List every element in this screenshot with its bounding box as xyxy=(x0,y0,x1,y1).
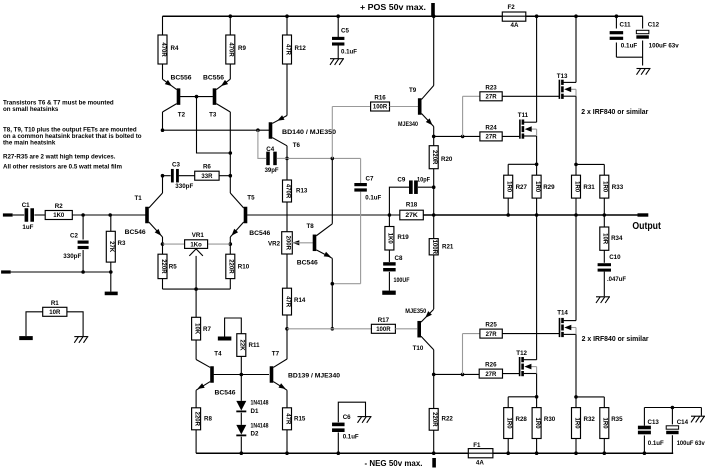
junction bias tie xyxy=(240,373,244,377)
wire R12 to T6 emitter xyxy=(286,64,288,116)
junction bottom R32 xyxy=(574,451,578,455)
ground R11 xyxy=(218,337,232,341)
wire up to R23 xyxy=(463,96,480,136)
junction C2 return xyxy=(81,270,85,274)
svg-text:C5: C5 xyxy=(341,28,349,35)
input ground stub xyxy=(1,270,11,273)
svg-text:27K: 27K xyxy=(108,241,114,253)
junction R3 node xyxy=(108,213,112,217)
svg-text:T13: T13 xyxy=(557,73,568,80)
svg-text:470R: 470R xyxy=(228,42,234,57)
junction C4 branch xyxy=(256,128,260,132)
svg-text:R21: R21 xyxy=(442,244,454,251)
svg-text:T9: T9 xyxy=(409,87,417,94)
transistor T7 xyxy=(270,351,341,391)
svg-text:1R0: 1R0 xyxy=(602,418,608,430)
resistor R21 xyxy=(429,215,454,309)
junction mirror out xyxy=(161,128,165,132)
junction T10 emitter node xyxy=(432,373,436,377)
wire T12 drain xyxy=(536,215,538,360)
wire R14 to T7 collector xyxy=(286,315,288,359)
resistor R1 xyxy=(43,300,67,317)
svg-text:R26: R26 xyxy=(485,362,497,369)
wire R12 top xyxy=(286,16,288,35)
junction C14 top xyxy=(671,406,675,410)
svg-text:R35: R35 xyxy=(611,416,623,423)
ground R1 right xyxy=(74,337,88,343)
svg-text:R24: R24 xyxy=(485,124,497,131)
junction out rail A xyxy=(506,213,510,217)
svg-text:T12: T12 xyxy=(516,350,527,357)
junction top rail at R12 xyxy=(285,14,289,18)
wire input to C1 xyxy=(13,214,25,216)
wire T3 collector column xyxy=(229,112,231,176)
junction top rail at T13 drain xyxy=(574,14,578,18)
wire R25 to T14 gate xyxy=(502,333,559,335)
wire R17 to T10 base xyxy=(395,328,417,330)
svg-text:All other resistors are 0.5 wa: All other resistors are 0.5 watt metal f… xyxy=(3,164,122,171)
label 2xIRF840 top xyxy=(581,109,648,116)
wire C4 left xyxy=(258,130,266,158)
svg-text:C9: C9 xyxy=(397,176,405,183)
wire R24 to T11 gate xyxy=(502,135,519,137)
resistor R28 xyxy=(504,397,528,453)
svg-text:0.1uF: 0.1uF xyxy=(648,440,664,447)
mosfet T13 xyxy=(557,73,576,99)
wire R9 to T3 emitter xyxy=(229,64,231,79)
capacitor C1 xyxy=(22,202,34,231)
svg-text:1R0: 1R0 xyxy=(573,181,579,193)
output terminal xyxy=(638,213,649,216)
svg-text:D1: D1 xyxy=(251,408,259,415)
wire T13 drain xyxy=(575,16,577,82)
wire T11 drain xyxy=(536,16,538,122)
wire R17 line xyxy=(287,328,371,330)
svg-text:R18: R18 xyxy=(406,202,418,209)
svg-text:R22: R22 xyxy=(442,416,454,423)
svg-text:1R0: 1R0 xyxy=(506,181,512,193)
svg-text:C6: C6 xyxy=(343,414,351,421)
mosfet T11 xyxy=(518,112,537,139)
capacitor C5 xyxy=(332,16,357,58)
resistor R19 xyxy=(385,215,409,250)
resistor R31 xyxy=(572,164,596,215)
junction T3 collector tie xyxy=(229,151,233,155)
resistor R10 xyxy=(226,244,250,289)
svg-text:10R: 10R xyxy=(49,310,61,316)
wire T8 collector up xyxy=(331,158,333,223)
junction bottom C6 xyxy=(337,451,341,455)
diode D2 xyxy=(236,413,269,438)
junction top rail at T11 drain xyxy=(535,14,539,18)
svg-text:R17: R17 xyxy=(378,317,390,324)
svg-text:R34: R34 xyxy=(611,235,623,242)
wire T11 source xyxy=(536,136,538,164)
svg-text:100R: 100R xyxy=(376,327,391,333)
transistor T5 xyxy=(230,193,271,237)
label Output xyxy=(632,221,661,232)
wire T10 emitter down xyxy=(433,350,435,375)
resistor R32 xyxy=(572,397,596,453)
svg-text:R6: R6 xyxy=(203,164,211,171)
trimpot VR2 xyxy=(268,232,299,254)
fuse F2 xyxy=(502,4,526,29)
transistor T4 xyxy=(196,351,236,397)
wire comp node xyxy=(287,157,361,159)
svg-text:T3: T3 xyxy=(209,112,217,119)
transistor T6 xyxy=(269,115,337,149)
svg-text:0.1uF: 0.1uF xyxy=(341,49,357,56)
svg-text:T4: T4 xyxy=(214,351,222,358)
svg-text:1K0: 1K0 xyxy=(387,233,393,245)
wire R20 to mid rail xyxy=(433,169,435,215)
resistor R3 xyxy=(106,215,126,292)
svg-text:- NEG 50v max.: - NEG 50v max. xyxy=(365,459,423,468)
junction gate splitter xyxy=(461,135,465,139)
wire tail bus xyxy=(163,288,231,290)
junction C9 right xyxy=(432,185,436,189)
svg-text:the main heatsink: the main heatsink xyxy=(3,140,56,147)
wire T2 T3 base tie xyxy=(180,96,213,98)
capacitor C4 xyxy=(265,146,279,174)
capacitor C12 xyxy=(636,22,679,50)
svg-text:1N4148: 1N4148 xyxy=(251,423,269,430)
svg-text:C3: C3 xyxy=(172,162,180,169)
transistor T10 xyxy=(405,308,433,352)
svg-text:10K: 10K xyxy=(193,323,199,335)
junction bottom R30 xyxy=(535,451,539,455)
resistor R8 xyxy=(192,408,213,453)
resistor R5 xyxy=(158,244,177,289)
svg-text:R14: R14 xyxy=(294,297,306,304)
wire drain bus AB low xyxy=(508,396,536,398)
svg-text:200R: 200R xyxy=(284,236,290,251)
resistor R25 xyxy=(480,322,502,339)
junction T11 source node xyxy=(535,163,539,167)
capacitor C14 xyxy=(666,419,705,453)
transistor T1 xyxy=(125,193,163,237)
svg-text:BC546: BC546 xyxy=(215,389,237,396)
svg-text:R32: R32 xyxy=(584,416,596,423)
wire C3 left xyxy=(163,175,171,177)
svg-text:220R: 220R xyxy=(160,259,166,274)
resistor R18 xyxy=(400,202,424,220)
svg-text:330pF: 330pF xyxy=(63,253,81,260)
svg-text:4A: 4A xyxy=(511,22,519,29)
fuse F1 xyxy=(468,442,493,467)
junction bottom R35 xyxy=(603,451,607,455)
svg-text:F2: F2 xyxy=(508,4,516,11)
transistor T9 xyxy=(398,86,434,129)
note text xyxy=(3,100,142,171)
wire T4 T7 base tie xyxy=(214,374,269,376)
wire C4 right xyxy=(277,157,287,159)
svg-text:T14: T14 xyxy=(557,310,568,317)
wire R18 right xyxy=(423,214,637,216)
wire source bus CD xyxy=(576,163,604,165)
junction mid rail at R21 xyxy=(432,213,436,217)
svg-text:R12: R12 xyxy=(295,45,307,52)
svg-text:R10: R10 xyxy=(238,264,250,271)
svg-text:27R: 27R xyxy=(485,372,497,378)
wire R4 to T2 emitter xyxy=(162,64,164,79)
wire input return xyxy=(11,271,111,273)
resistor R16 xyxy=(371,95,390,112)
wire C3 to R6 xyxy=(179,175,195,177)
resistor R7 xyxy=(192,289,212,340)
resistor R30 xyxy=(532,397,556,453)
svg-text:1uF: 1uF xyxy=(22,224,33,231)
svg-text:220R: 220R xyxy=(431,150,437,165)
junction top rail at T9 xyxy=(432,14,436,18)
svg-text:R4: R4 xyxy=(171,45,179,52)
svg-text:R19: R19 xyxy=(397,234,409,241)
svg-text:D2: D2 xyxy=(251,431,259,438)
junction bottom R22 xyxy=(432,451,436,455)
junction base tie xyxy=(195,95,199,99)
svg-text:C11: C11 xyxy=(620,22,632,29)
svg-text:T11: T11 xyxy=(518,112,529,119)
positive supply tick xyxy=(431,3,435,16)
wire D2 to rail xyxy=(240,437,242,454)
capacitor C6 xyxy=(332,402,365,453)
wire drain bus CD low xyxy=(576,396,604,398)
svg-text:0.1uF: 0.1uF xyxy=(365,195,381,202)
wire R26 to T12 gate xyxy=(503,373,520,375)
svg-text:T8: T8 xyxy=(307,223,315,230)
resistor R27 xyxy=(504,164,528,215)
wire T5 collector xyxy=(229,176,231,193)
junction out rail C xyxy=(574,213,578,217)
junction out rail B xyxy=(535,213,539,217)
junction T1 emitter node xyxy=(161,242,165,246)
svg-text:MJE340: MJE340 xyxy=(398,121,418,128)
resistor R6 xyxy=(195,164,219,181)
resistor R2 xyxy=(45,203,72,220)
junction T5 emitter node xyxy=(229,242,233,246)
junction T8 at R17 xyxy=(331,327,335,331)
svg-text:100uF 63v: 100uF 63v xyxy=(649,43,680,50)
svg-text:33R: 33R xyxy=(201,174,213,180)
ground C13 C14 xyxy=(691,416,705,422)
capacitor C2 xyxy=(63,215,88,272)
svg-text:T1: T1 xyxy=(135,195,143,202)
svg-text:2 x IRF840 or similar: 2 x IRF840 or similar xyxy=(582,336,649,343)
junction T12 source node xyxy=(535,395,539,399)
svg-text:VR1: VR1 xyxy=(192,232,205,239)
svg-text:R23: R23 xyxy=(485,84,497,91)
svg-text:R28: R28 xyxy=(516,416,528,423)
svg-text:.047uF: .047uF xyxy=(607,276,626,283)
resistor R15 xyxy=(283,408,306,453)
ground C10 xyxy=(596,297,610,303)
svg-text:470R: 470R xyxy=(160,42,166,57)
svg-text:R11: R11 xyxy=(249,342,261,349)
junction T6 collector node xyxy=(285,157,289,161)
wire T13 source xyxy=(575,96,577,164)
capacitor C8 xyxy=(383,250,410,291)
ground R3 xyxy=(105,292,118,296)
wire C1 to R2 xyxy=(34,214,45,216)
wire T7 emitter xyxy=(286,390,288,408)
svg-text:Output: Output xyxy=(632,221,661,232)
wire T14 drain xyxy=(575,215,577,321)
ground C5 xyxy=(330,59,344,65)
svg-text:10R: 10R xyxy=(602,233,608,245)
svg-text:MJE350: MJE350 xyxy=(405,308,427,315)
svg-text:C4: C4 xyxy=(266,146,274,153)
wire R16 left xyxy=(332,107,370,159)
resistor R29 xyxy=(532,164,555,215)
wire T9 emitter to gate resistors xyxy=(434,135,463,137)
svg-text:R16: R16 xyxy=(374,95,386,102)
svg-text:220R: 220R xyxy=(431,412,437,427)
transistor T8 xyxy=(297,223,333,266)
junction comp at T8 xyxy=(331,157,335,161)
svg-text:C13: C13 xyxy=(648,419,660,426)
label - NEG 50v max. xyxy=(365,459,423,468)
junction C3 left xyxy=(161,174,165,178)
svg-text:C12: C12 xyxy=(648,22,660,29)
capacitor C3 xyxy=(171,162,194,190)
svg-text:BC556: BC556 xyxy=(203,75,225,82)
svg-text:2 x IRF840 or similar: 2 x IRF840 or similar xyxy=(581,109,648,116)
wire R9 top xyxy=(229,16,231,35)
svg-text:0.1uF: 0.1uF xyxy=(343,434,359,441)
ground C6 xyxy=(358,417,372,423)
junction C2 node xyxy=(81,213,85,217)
svg-text:R27: R27 xyxy=(516,184,528,191)
svg-text:100UF: 100UF xyxy=(394,277,410,284)
mosfet T12 xyxy=(516,350,536,376)
junction R6 right xyxy=(229,174,233,178)
svg-text:R8: R8 xyxy=(204,416,212,423)
wire C11 C12 branch xyxy=(616,16,642,65)
svg-text:BD139 / MJE340: BD139 / MJE340 xyxy=(288,373,341,380)
svg-text:R5: R5 xyxy=(169,264,177,271)
label + POS 50v max. xyxy=(360,3,426,12)
svg-text:100R: 100R xyxy=(431,240,437,255)
svg-text:220R: 220R xyxy=(193,412,199,427)
junction T13 source node xyxy=(574,163,578,167)
mosfet T14 xyxy=(557,310,576,338)
junction lower gate splitter xyxy=(461,373,465,377)
svg-text:C14: C14 xyxy=(677,419,689,426)
svg-text:1K0: 1K0 xyxy=(53,213,65,219)
svg-text:27R: 27R xyxy=(486,332,498,338)
resistor R12 xyxy=(283,35,307,64)
wire C13 C14 top bus xyxy=(644,408,701,426)
resistor R4 xyxy=(158,35,179,64)
svg-text:47R: 47R xyxy=(284,296,290,308)
resistor R35 xyxy=(600,397,623,453)
capacitor C7 xyxy=(354,158,381,283)
svg-text:R9: R9 xyxy=(238,45,246,52)
wire T12 source xyxy=(536,374,538,397)
svg-text:27K: 27K xyxy=(405,212,418,219)
svg-text:F1: F1 xyxy=(473,442,481,449)
ground C11 C12 xyxy=(637,69,651,75)
resistor R24 xyxy=(463,124,503,141)
svg-text:C10: C10 xyxy=(609,254,621,261)
svg-text:4A: 4A xyxy=(476,460,484,467)
svg-text:220R: 220R xyxy=(228,259,234,274)
resistor R26 xyxy=(463,362,503,379)
svg-text:22K: 22K xyxy=(239,340,245,352)
diode D1 xyxy=(236,375,269,415)
junction tail node xyxy=(194,287,198,291)
wire T8 emitter down xyxy=(331,258,333,329)
wire T14 source xyxy=(575,334,577,397)
wire source bus AB xyxy=(508,163,536,165)
junction bottom D2 xyxy=(240,451,244,455)
svg-text:47R: 47R xyxy=(284,413,290,425)
capacitor C9 xyxy=(389,176,433,215)
wire R23 to T13 gate xyxy=(502,95,559,97)
junction T8 emitter C7 xyxy=(331,282,335,286)
resistor R13 xyxy=(283,158,308,202)
svg-text:39pF: 39pF xyxy=(265,167,279,174)
junction top rail at C11 xyxy=(615,14,619,18)
svg-text:R2: R2 xyxy=(55,203,63,210)
wire R7 to T4 collector xyxy=(195,340,197,360)
wire VR2 wiper to T8 base xyxy=(292,242,313,244)
wire R4 top xyxy=(162,16,164,35)
wire VR1 bus xyxy=(163,243,231,245)
resistor R34 xyxy=(600,215,623,250)
svg-text:BD140 / MJE350: BD140 / MJE350 xyxy=(282,129,337,136)
svg-text:27R: 27R xyxy=(486,95,498,101)
svg-text:T7: T7 xyxy=(272,351,280,358)
svg-text:R31: R31 xyxy=(583,184,595,191)
wire T1 collector xyxy=(162,176,164,193)
svg-text:R27-R35 are 2 watt high temp d: R27-R35 are 2 watt high temp devices. xyxy=(3,154,116,161)
svg-text:1R0: 1R0 xyxy=(534,418,540,430)
svg-text:100uF 63v: 100uF 63v xyxy=(677,440,706,447)
ground C8 xyxy=(382,291,396,295)
svg-text:on small heatsinks: on small heatsinks xyxy=(3,106,59,113)
resistor R11 xyxy=(225,318,260,375)
svg-text:1R0: 1R0 xyxy=(506,418,512,430)
wire R1 left xyxy=(26,312,43,336)
junction bottom R28 xyxy=(506,451,510,455)
svg-text:T2: T2 xyxy=(178,112,186,119)
wire base to T3 collector xyxy=(197,97,231,153)
junction bottom R15 xyxy=(285,451,289,455)
wire T6 collector xyxy=(286,146,288,159)
svg-text:T6: T6 xyxy=(293,142,301,149)
wire -50V bottom rail xyxy=(196,452,673,454)
wire up to R25 xyxy=(463,334,480,375)
resistor R22 xyxy=(429,374,453,453)
junction bottom C13 xyxy=(643,451,647,455)
svg-text:47R: 47R xyxy=(284,44,290,56)
svg-text:R30: R30 xyxy=(544,416,556,423)
svg-text:R20: R20 xyxy=(441,156,453,163)
svg-text:R13: R13 xyxy=(296,188,308,195)
wire R13 to VR2 xyxy=(286,202,288,232)
svg-text:10pF: 10pF xyxy=(417,176,430,183)
svg-text:R1: R1 xyxy=(51,300,59,307)
resistor R23 xyxy=(480,84,502,101)
svg-text:R29: R29 xyxy=(543,184,555,191)
transistor T3 xyxy=(203,75,230,119)
wire R2 to T1 base xyxy=(72,214,145,216)
junction out rail D xyxy=(603,213,607,217)
wire T5 base to R18 xyxy=(247,214,400,216)
svg-text:C2: C2 xyxy=(70,233,78,240)
wire T2 collector column xyxy=(162,112,164,130)
